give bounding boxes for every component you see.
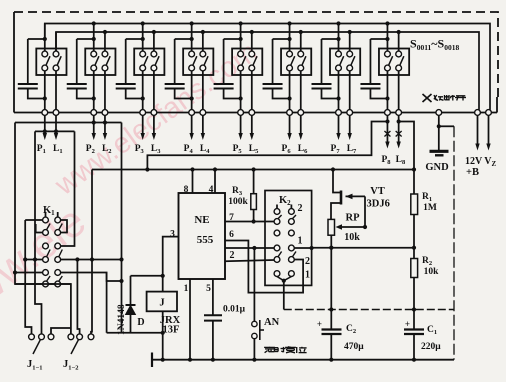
K1 row1 stubs up <box>46 212 58 217</box>
connector circles pair 8 <box>385 110 402 116</box>
capacitor across relay S0013 <box>116 37 145 101</box>
wire pin8 stub <box>190 167 194 193</box>
label K2 contact 2a <box>298 203 303 214</box>
relay contact box S0016 <box>281 49 311 76</box>
label VT <box>370 186 385 197</box>
wires of relay 2 poles <box>94 24 105 110</box>
connector bus line (bottom edge of unit) <box>14 112 497 114</box>
wire pin2 junction to AN <box>253 248 255 321</box>
junction bus1 to S0017 <box>336 21 340 25</box>
wire RP bottom to timing node <box>329 235 333 309</box>
label pin 6 <box>229 230 234 240</box>
transistor VT 3DJ6 <box>331 167 365 227</box>
label K2 <box>279 195 291 207</box>
svg-text:1M: 1M <box>423 203 437 213</box>
wire pin4 stub <box>213 167 217 193</box>
junction P1 tap <box>43 129 47 133</box>
K1 row5 wire <box>13 270 122 281</box>
wire pin7 to K2 <box>225 221 274 223</box>
junction L1 tap <box>54 129 58 133</box>
label J <box>159 298 164 309</box>
junction timing C2 <box>329 307 333 311</box>
label 0.01u <box>223 305 246 315</box>
svg-text:5: 5 <box>206 284 211 294</box>
capacitor across relay S0018 <box>360 37 389 101</box>
label 10k R2 <box>424 267 440 277</box>
svg-text:0.01μ: 0.01μ <box>223 305 246 315</box>
wire threshold line to R1 <box>312 246 417 250</box>
label P2 <box>86 144 95 155</box>
label pin 7 <box>229 213 234 223</box>
label J1-2 <box>63 359 78 372</box>
relay contact box S0012 <box>85 49 115 76</box>
svg-text:10k: 10k <box>424 267 440 277</box>
svg-text:D: D <box>137 317 144 328</box>
wire J1-1 right circle link <box>51 328 71 334</box>
switch J1-2 contacts <box>68 334 94 340</box>
junction bus1 to S0012 <box>92 21 96 25</box>
L8 wire with breakpoint x <box>396 115 402 148</box>
svg-text:7: 7 <box>229 213 234 223</box>
label pin 2 <box>230 250 235 261</box>
svg-text:220μ: 220μ <box>421 342 441 352</box>
relay contact box S0015 <box>232 49 262 76</box>
wire P8 branch to VCC rail <box>147 122 387 170</box>
svg-text:1N4148: 1N4148 <box>117 304 127 335</box>
svg-text:13F: 13F <box>163 325 180 336</box>
ground rail <box>152 353 454 368</box>
relay contact box S0014 <box>183 49 213 76</box>
label 13F <box>163 325 180 336</box>
svg-text:+: + <box>317 319 322 329</box>
wire timing node (dashed-scan) <box>284 309 454 311</box>
label pin 1 <box>184 284 189 294</box>
wire bus2 (lower supply bus) <box>56 32 479 110</box>
label L1 <box>53 144 63 155</box>
left rail from P2/L2 down to K1 row6 <box>15 123 71 335</box>
connector circle GND <box>436 110 442 116</box>
connector circles pair 1 <box>42 110 59 116</box>
label + C1 <box>405 319 410 329</box>
K1 switch levers <box>47 224 63 282</box>
RP wiper arrow <box>336 224 368 229</box>
GND wire <box>438 115 440 150</box>
label L3 <box>151 144 161 155</box>
label JRX <box>160 315 181 326</box>
label + C2 <box>317 319 322 329</box>
label C2 <box>346 324 356 335</box>
junction bus1 to S0014 <box>190 21 194 25</box>
label P4 <box>184 144 194 155</box>
connector circle 12V-a <box>475 110 481 116</box>
svg-text:470μ: 470μ <box>344 342 364 352</box>
P8 wire with breakpoint x <box>384 115 390 148</box>
relay block K2 box <box>265 191 312 286</box>
label 220u <box>421 342 441 352</box>
output arrows P3 L3 <box>141 115 157 140</box>
label L7 <box>347 144 357 155</box>
svg-text:6: 6 <box>229 230 234 240</box>
label 1M <box>423 203 437 213</box>
capacitor C2 <box>322 310 342 362</box>
junction P8 branch on rail <box>145 167 149 171</box>
label J1-1 <box>27 359 42 372</box>
svg-text:555: 555 <box>197 234 214 246</box>
junction R3 bottom <box>252 219 256 223</box>
connector circles pair 5 <box>238 110 255 116</box>
svg-text:1: 1 <box>305 270 310 281</box>
resistor R2 <box>411 248 418 310</box>
output arrows P6 L6 <box>287 115 303 140</box>
output arrows P2 L2 <box>92 115 108 140</box>
watermark www.elecfans.com <box>0 36 264 334</box>
label 12V Vz <box>465 156 496 168</box>
resistor R1 <box>411 194 418 248</box>
label K2 contact 1b <box>305 270 310 281</box>
capacitor across relay S0012 <box>67 37 96 101</box>
output arrows P4 L4 <box>189 115 205 140</box>
junction L2 <box>103 120 107 124</box>
capacitor across relay S0016 <box>263 37 292 101</box>
label 3DJ6 <box>367 199 390 210</box>
wire K2 row4 out <box>294 246 313 250</box>
label P5 <box>233 144 243 155</box>
K2 common V-link <box>277 277 291 310</box>
label P7 <box>331 144 341 155</box>
switch J1-1 lever <box>33 340 40 354</box>
wires of relay 5 poles <box>241 24 252 110</box>
label K2 contact 1a <box>298 236 303 247</box>
svg-text:+: + <box>405 319 410 329</box>
wire pin1 to ground rail <box>188 279 192 362</box>
label 100k <box>228 197 248 207</box>
junction bus2 to S0013 <box>152 30 156 34</box>
label C1 <box>427 325 437 336</box>
wires of relay 8 poles <box>387 24 398 110</box>
label L5 <box>249 144 259 155</box>
label P6 <box>282 144 292 155</box>
op-amp U1 NE555 box <box>179 193 226 279</box>
wire pin5 down <box>212 279 214 315</box>
K2 row1 stubs <box>277 205 291 209</box>
svg-text:NE: NE <box>194 214 209 226</box>
svg-text:2: 2 <box>298 203 303 214</box>
label R2 <box>422 256 432 267</box>
connector circle 12V-b <box>486 110 492 116</box>
junction bus1 to S0018 <box>385 21 389 25</box>
K1 row6 wire <box>15 283 71 285</box>
diode D 1N4148 <box>126 276 136 333</box>
junction P2 <box>92 120 96 124</box>
connector circles pair 6 <box>287 110 304 116</box>
dashed enclosure border (S0011~S0018 switch unit) <box>14 12 498 113</box>
label P1 <box>37 144 46 155</box>
output arrows P7 L7 <box>336 115 352 140</box>
junction bus2 to S0015 <box>250 30 254 34</box>
relay contact box S0011 <box>36 49 66 76</box>
wire pin2 to K2 row4 and AN <box>225 246 274 250</box>
svg-text:1: 1 <box>184 284 189 294</box>
ground link wire <box>107 332 163 334</box>
right rail wire (broken/dashed) <box>453 126 455 359</box>
capacitor across relay S0011 <box>18 37 47 101</box>
svg-text:4: 4 <box>209 185 214 195</box>
capacitor C1 <box>404 310 424 362</box>
K1 row1 brackets <box>25 220 67 233</box>
junction GND branch <box>437 124 441 128</box>
label L8 <box>396 155 406 166</box>
label +B <box>466 167 479 178</box>
label GND <box>425 162 449 173</box>
label L4 <box>200 144 210 155</box>
relay contact box S0017 <box>330 49 360 76</box>
output arrows P1 L1 <box>43 115 59 140</box>
svg-text:2: 2 <box>230 250 235 261</box>
junction bus2 to S0016 <box>299 30 303 34</box>
wires of relay 7 poles <box>339 24 350 110</box>
potentiometer RP <box>328 219 335 235</box>
ground symbol <box>430 151 449 155</box>
label 10k <box>344 232 360 243</box>
label x处断开 (break at x) <box>423 94 467 102</box>
svg-text:1: 1 <box>298 236 303 247</box>
connector circles pair 2 <box>91 110 108 116</box>
relay J box <box>147 292 177 312</box>
wires of relay 3 poles <box>143 24 154 110</box>
wire GND to right rail <box>439 125 454 127</box>
P1 loop left edge down to J1-1 mid <box>35 131 42 334</box>
svg-text:3: 3 <box>170 230 175 240</box>
relay contact box S0013 <box>134 49 164 76</box>
wire pin6 path <box>225 241 303 293</box>
svg-text:100k: 100k <box>228 197 248 207</box>
output arrows P5 L5 <box>238 115 254 140</box>
12V supply arrows <box>475 115 490 150</box>
junction timing C1 <box>412 307 416 311</box>
resistor R3 <box>251 167 257 221</box>
label 1N4148 <box>117 304 127 335</box>
connector circles pair 7 <box>336 110 353 116</box>
pushbutton AN <box>252 320 264 362</box>
relay contact box S0018 <box>379 49 409 76</box>
svg-text:AN: AN <box>264 317 280 328</box>
wire pin3 to relay J node <box>163 237 179 276</box>
wire K1 row5 drop <box>106 273 108 333</box>
K2 switch levers <box>278 215 296 257</box>
label P8 <box>381 155 391 166</box>
svg-text:GND: GND <box>425 162 449 173</box>
label R1 <box>422 192 432 203</box>
label timing reset 定时复位 <box>264 347 307 353</box>
wire J bottom to ground <box>161 311 165 362</box>
wires of relay 6 poles <box>290 24 301 110</box>
connector circles pair 4 <box>189 110 206 116</box>
junction bus1 to S0015 <box>239 21 243 25</box>
K2 contact circles <box>274 209 294 277</box>
label P3 <box>135 144 145 155</box>
svg-text:3DJ6: 3DJ6 <box>367 199 390 210</box>
label NE 555 <box>194 214 213 246</box>
junction bus2 to S0012 <box>103 30 107 34</box>
connector circles pair 3 <box>140 110 157 116</box>
switch J1-2 lever <box>71 340 78 354</box>
wires of relay 1 poles <box>45 24 56 110</box>
P1/L1 loop top <box>35 130 75 132</box>
label 470u <box>344 342 364 352</box>
svg-text:J: J <box>159 298 164 309</box>
label pin 8 <box>184 185 189 195</box>
L1 loop right edge down to K1 row3 <box>61 131 75 246</box>
junction VCC R1 <box>412 167 416 171</box>
junction bus2 to S0017 <box>348 30 352 34</box>
svg-text:RP: RP <box>346 213 361 224</box>
svg-text:2: 2 <box>305 256 310 267</box>
wire pin2b to K2 row5 <box>225 260 274 261</box>
K1 row4 wire <box>23 257 121 261</box>
junction bus1 to S0013 <box>141 21 145 25</box>
label pin 3 <box>170 230 175 240</box>
label L2 <box>102 144 112 155</box>
svg-text:10k: 10k <box>344 232 360 243</box>
label D <box>137 317 144 328</box>
capacitor across relay S0015 <box>214 37 243 101</box>
svg-text:VT: VT <box>370 186 385 197</box>
junction bus1 to S0016 <box>287 21 291 25</box>
capacitor across relay S0014 <box>165 37 194 101</box>
wire pin3 node <box>131 274 165 292</box>
svg-text:8: 8 <box>184 185 189 195</box>
switch J1-1 contacts <box>29 334 54 340</box>
wire L2 drop to ground link <box>119 123 123 333</box>
label RP <box>346 213 361 224</box>
label AN <box>264 317 280 328</box>
wires of relay 4 poles <box>192 24 203 110</box>
label S0011~S0018 <box>410 37 459 53</box>
label pin 4 <box>209 185 214 195</box>
wire P2/L2 link line <box>15 122 122 124</box>
wire L8 branch to R1 <box>399 122 414 195</box>
wire VCC rail corner down to K1 row4 / J1-2 right <box>91 170 92 335</box>
label L6 <box>298 144 308 155</box>
junction bus2 to S0014 <box>201 30 205 34</box>
label pin 5 <box>206 284 211 294</box>
svg-text:+B: +B <box>466 167 479 178</box>
wire bus1 (upper supply bus) <box>45 24 490 110</box>
VCC rail <box>92 169 414 171</box>
capacitor 0.01u on pin5 <box>204 315 222 362</box>
wire J1-2 middle feed <box>77 260 79 335</box>
wire K1 bracket to J1-1 left <box>25 220 31 334</box>
label K1 <box>43 205 55 217</box>
K1 contact circles <box>43 217 61 287</box>
junction bus2 to S0018 <box>397 30 401 34</box>
capacitor across relay S0017 <box>312 37 341 101</box>
label K2 contact 2b <box>305 256 310 267</box>
label R3 <box>232 186 243 197</box>
